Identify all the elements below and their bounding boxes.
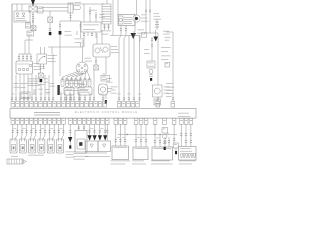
coil pin x121	[120, 26, 122, 34]
sensor box S2	[78, 87, 92, 95]
label smudge above pins d	[45, 89, 50, 93]
wire igniter feed x102	[101, 30, 103, 44]
terminal pair x90	[89, 12, 91, 14]
wire to ECU top pin col x28	[27, 74, 29, 101]
wire to ECU top pin col x41	[40, 83, 42, 101]
terminal code text above ECU pins	[11, 93, 141, 96]
distributor label	[34, 63, 42, 70]
chain box x176	[173, 143, 178, 148]
bottom-left connector strip	[7, 156, 27, 164]
air flow meter label	[48, 55, 58, 62]
terminal pair x80	[79, 25, 81, 27]
label box above pins	[21, 92, 30, 99]
coil pin x126	[125, 26, 127, 34]
terminal pair afm	[39, 66, 44, 68]
junction blob x60	[59, 31, 62, 35]
label smudge above pins a	[14, 83, 20, 88]
terminal marks chain x176	[173, 139, 175, 141]
branch bus y21	[60, 20, 81, 22]
junction node x33	[32, 21, 33, 22]
O2 sensor dark arrow	[154, 30, 159, 42]
sensor box S1	[64, 88, 74, 96]
harness flag label	[74, 2, 82, 9]
small box above cmp sensor	[101, 76, 110, 82]
sensor S1 pins	[67, 95, 72, 101]
box B1 label	[111, 161, 131, 165]
terminal marks box1 wires	[115, 140, 127, 142]
ground blob afm	[40, 79, 43, 82]
label chain right b	[165, 37, 171, 41]
ground chain dark dot	[69, 145, 71, 148]
label smudge above pins e	[50, 83, 56, 87]
wire x60 branch down	[59, 21, 61, 31]
label chain right d	[161, 56, 171, 61]
wire to ECU top pin col x36	[35, 75, 37, 101]
ignition coil label box	[27, 31, 34, 36]
label smudge x65 y31	[65, 31, 73, 36]
wire x30 down from box	[28, 36, 30, 54]
label text left of verticals b	[107, 88, 113, 92]
wire x94 long to ECU	[93, 70, 95, 101]
wire plug-area to pin x79	[78, 92, 80, 102]
condenser dark triangle	[131, 33, 137, 39]
wire afm feed a	[40, 47, 42, 54]
wires to box4	[181, 125, 191, 147]
label left of x152	[144, 49, 150, 54]
terminal pair x152 a	[151, 39, 153, 41]
wire x173 long	[166, 32, 173, 101]
O2 sensor tick	[155, 26, 159, 28]
wire to ECU top pin col x16	[15, 75, 17, 101]
ground dot x152	[150, 78, 152, 81]
label chain right f	[166, 90, 174, 97]
wire to ECU top pin col x49	[48, 75, 50, 101]
ECU top connector pin boxes	[11, 102, 175, 108]
terminal marks x77	[76, 32, 78, 34]
wire top bus y7.5	[42, 7, 68, 9]
component box B2 bottom	[133, 147, 148, 160]
terminal pair on x33 lower	[32, 18, 34, 20]
relay box K1 (with two diodes)	[14, 11, 30, 22]
wire x80 to bus	[80, 43, 82, 47]
chain circle x164	[163, 134, 167, 138]
sensor S2 pins	[80, 95, 90, 101]
wire x139 long	[139, 36, 142, 102]
chain dark dot x176	[175, 151, 177, 154]
circuit opening relay K3	[75, 131, 87, 153]
connector X box afm	[39, 73, 44, 78]
fuel pump label	[164, 87, 172, 94]
relay label text	[89, 9, 97, 12]
labels above sensor boxes	[66, 80, 84, 84]
component box B4 bottom (multi-pin connector)	[179, 147, 197, 161]
wire x152 chain	[151, 37, 153, 61]
diode array wires	[90, 125, 108, 142]
terminal marks coil pins	[120, 29, 127, 31]
wire to ECU top pin col x53	[52, 54, 54, 101]
cap label	[85, 58, 92, 62]
corner x140 down	[139, 36, 141, 41]
wire to ECU top pin col x32	[31, 74, 33, 101]
wire x103 to ECU	[102, 95, 104, 101]
wire top bus y4	[12, 3, 68, 5]
component box B1 bottom	[112, 146, 129, 160]
distributor cap (circle with towers)	[76, 62, 88, 74]
label box above bus y47	[75, 39, 85, 44]
wire distributor pin c	[26, 54, 28, 61]
wire x146 from top	[145, 0, 147, 33]
wire x60 long down	[59, 35, 61, 76]
spark plug label text	[64, 88, 88, 92]
terminal pair x96b	[95, 60, 97, 62]
cam sensor label	[111, 87, 118, 94]
wires to box3	[155, 125, 169, 148]
wire to ECU top pin col x24	[23, 74, 25, 101]
circle below box x152	[149, 70, 153, 74]
wire relay pin x90	[89, 7, 91, 22]
label smudge above pins b	[20, 83, 28, 88]
wire top bus y11	[42, 10, 68, 12]
wire ground chain x70	[69, 125, 71, 138]
wire afm down b	[43, 64, 45, 69]
wire afm down a	[40, 64, 42, 73]
terminal marks above ECU top pins	[11, 98, 174, 100]
small marks left of verticals	[105, 96, 108, 98]
wire plug-area to pin x70	[69, 92, 71, 102]
distributor / cam position sensor D1	[16, 61, 33, 74]
ballast resistor R1 (hatched)	[102, 0, 111, 24]
ground chain dark arrow	[68, 137, 72, 145]
ignition switch dark blob (cut at top)	[31, 0, 35, 6]
wire plug-area to pin x65	[64, 92, 66, 102]
resistor marks above pins	[33, 90, 36, 94]
ECU main box	[10, 109, 196, 119]
relay pin stubs below	[84, 32, 96, 47]
terminal marks diode wires	[88, 130, 108, 132]
wire coil HT x136	[136, 0, 138, 15]
wire plug-area to pin x74	[73, 92, 75, 102]
ignition coil T1	[118, 15, 140, 26]
afm ground label	[44, 79, 49, 83]
ground blob x50	[49, 32, 52, 35]
wire distributor pin d	[30, 54, 32, 61]
terminal pair x152 b	[151, 45, 153, 47]
wire to ECU top pin col x12	[11, 4, 13, 101]
svg-text:ELECTRONIC CONTROL MODULE: ELECTRONIC CONTROL MODULE	[75, 111, 137, 114]
wire x158 long	[157, 33, 159, 85]
label chain right a	[163, 31, 170, 35]
terminal pair x50	[49, 28, 51, 30]
dark connector bar	[57, 85, 59, 95]
ECU label left	[34, 112, 60, 115]
coil label	[141, 15, 148, 22]
terminal pair x70	[69, 16, 71, 18]
EFI main relay K2	[81, 22, 101, 32]
bus wire y35.5	[110, 35, 140, 37]
wire coil feed x113	[112, 0, 114, 36]
wire afm feed b	[44, 47, 46, 54]
wires to box1	[116, 125, 125, 147]
harness connector box at top bus	[68, 3, 73, 13]
relay K3 pins	[79, 125, 84, 131]
terminal pair x96	[95, 14, 105, 18]
wire to ECU top pin col x20	[19, 74, 21, 101]
wire color code labels right bottom	[117, 133, 169, 138]
wire x124 long	[124, 33, 126, 101]
connector X box x96	[94, 65, 99, 70]
wire x52 stub	[51, 47, 53, 54]
wire top bus to relay x84	[68, 4, 104, 22]
sensor S2 label above	[78, 83, 86, 86]
small box on wire x144	[142, 33, 147, 38]
injector wire code labels	[13, 127, 62, 130]
resistor label	[101, 31, 111, 35]
fuel injector label	[28, 154, 44, 157]
injector wire jogs	[12, 135, 63, 139]
wire left main bus vertical	[11, 4, 13, 101]
chain terminal bars x164	[163, 142, 166, 144]
chain small box x164	[162, 128, 168, 134]
igniter / distributor body U2	[93, 44, 110, 57]
wire x119 long	[119, 33, 121, 101]
terminal marks K3 pins	[78, 127, 85, 129]
coil HT pin x135	[134, 22, 136, 32]
wire distributor pin a	[19, 54, 31, 61]
wire x134 long	[134, 32, 135, 102]
relay K3 label	[74, 153, 89, 160]
ground chain label	[66, 152, 77, 158]
bus y33 right	[144, 32, 158, 34]
terminal marks box3 wires	[154, 140, 170, 142]
wire ignition feed x33	[32, 12, 34, 31]
fuel pump connector box	[154, 99, 161, 105]
terminal pair on x33 upper	[32, 14, 34, 16]
small box chain right	[165, 63, 170, 68]
note text block below distributor	[28, 79, 42, 87]
connector box with X at x33	[29, 6, 37, 12]
fuel injectors (6)	[10, 139, 64, 153]
wire drop to relay box pin 1	[16, 4, 18, 11]
terminal marks distributor pins	[18, 57, 32, 59]
chain ground dot x164	[164, 147, 166, 150]
bus junction dots	[126, 134, 160, 135]
wire igniter feed x97	[96, 33, 98, 44]
terminal marks box4 wires	[180, 133, 192, 142]
cam sensor round component	[99, 84, 108, 95]
wire x150 from top	[149, 0, 151, 33]
component box B3 bottom	[152, 147, 173, 160]
wire x25 branch	[25, 40, 33, 54]
label smudge above pins c	[38, 84, 45, 90]
terminal marks below resistor	[103, 26, 109, 28]
O2 sensor label text	[154, 13, 162, 20]
spark plug wires fan	[63, 71, 90, 78]
diode array label	[85, 153, 110, 157]
box B4 label	[179, 161, 196, 165]
relay K3 inner box	[77, 139, 85, 149]
terminal marks box2 wires	[135, 140, 147, 142]
terminal marks injector wires	[12, 131, 65, 133]
wire relay pin x96	[95, 12, 97, 22]
diode wire code labels	[90, 127, 103, 130]
ECU bottom connector pin boxes	[11, 118, 193, 124]
terminal marks below relay	[83, 34, 93, 36]
wire below igniter x96	[95, 57, 97, 65]
wires to box2	[136, 125, 146, 148]
wire chain x176	[174, 125, 176, 152]
injector wires from ECU	[13, 125, 64, 136]
connector box with X below	[31, 26, 36, 31]
terminal pair x60	[59, 25, 61, 27]
air flow meter sensor B2	[37, 54, 47, 64]
wire to ECU top pin col x45	[44, 75, 46, 101]
O2 sensor element marks	[155, 20, 159, 31]
spark plugs (7)	[61, 77, 91, 87]
bus y47 middle	[48, 46, 83, 48]
wire drop to relay box pin 2	[21, 4, 23, 11]
ECU label right	[178, 113, 191, 117]
diode array boxes	[86, 141, 111, 152]
wire igniter right pin x106	[103, 57, 107, 74]
fuel pump F2 (box with circle)	[153, 85, 163, 97]
igniter label	[111, 46, 119, 53]
label smudge right of condenser	[138, 30, 145, 34]
label chain right c	[161, 47, 171, 52]
small box right of ignition switch	[38, 7, 44, 13]
wire coil feed x118	[117, 0, 119, 16]
connector box with X at x50	[48, 17, 53, 23]
fuse box F1	[26, 23, 31, 29]
bottom bus y134.5	[118, 134, 177, 136]
dark dot left of verticals	[105, 100, 107, 104]
box B2 label	[132, 161, 146, 165]
ECU label center ELECTRONIC CONTROL MODULE	[75, 111, 137, 114]
wire x129 long	[128, 36, 130, 102]
resistor pins below	[105, 24, 109, 30]
sensor box on x152	[147, 61, 155, 68]
wire drop x50	[49, 11, 51, 17]
wire below connector x70	[70, 13, 72, 21]
box B3 label	[151, 161, 173, 165]
wire x50 lower	[49, 23, 51, 33]
label text left of verticals a	[106, 78, 113, 83]
terminal bars x152	[149, 75, 152, 77]
terminal marks x70	[69, 131, 71, 133]
wire x80 branch down	[80, 21, 82, 38]
wire distributor pin b	[22, 54, 24, 61]
diode dark arrows	[88, 135, 108, 140]
wire x83 corner to cap	[81, 40, 84, 63]
label chain right e	[166, 83, 174, 88]
wire plug-area to pin x61	[60, 92, 62, 102]
